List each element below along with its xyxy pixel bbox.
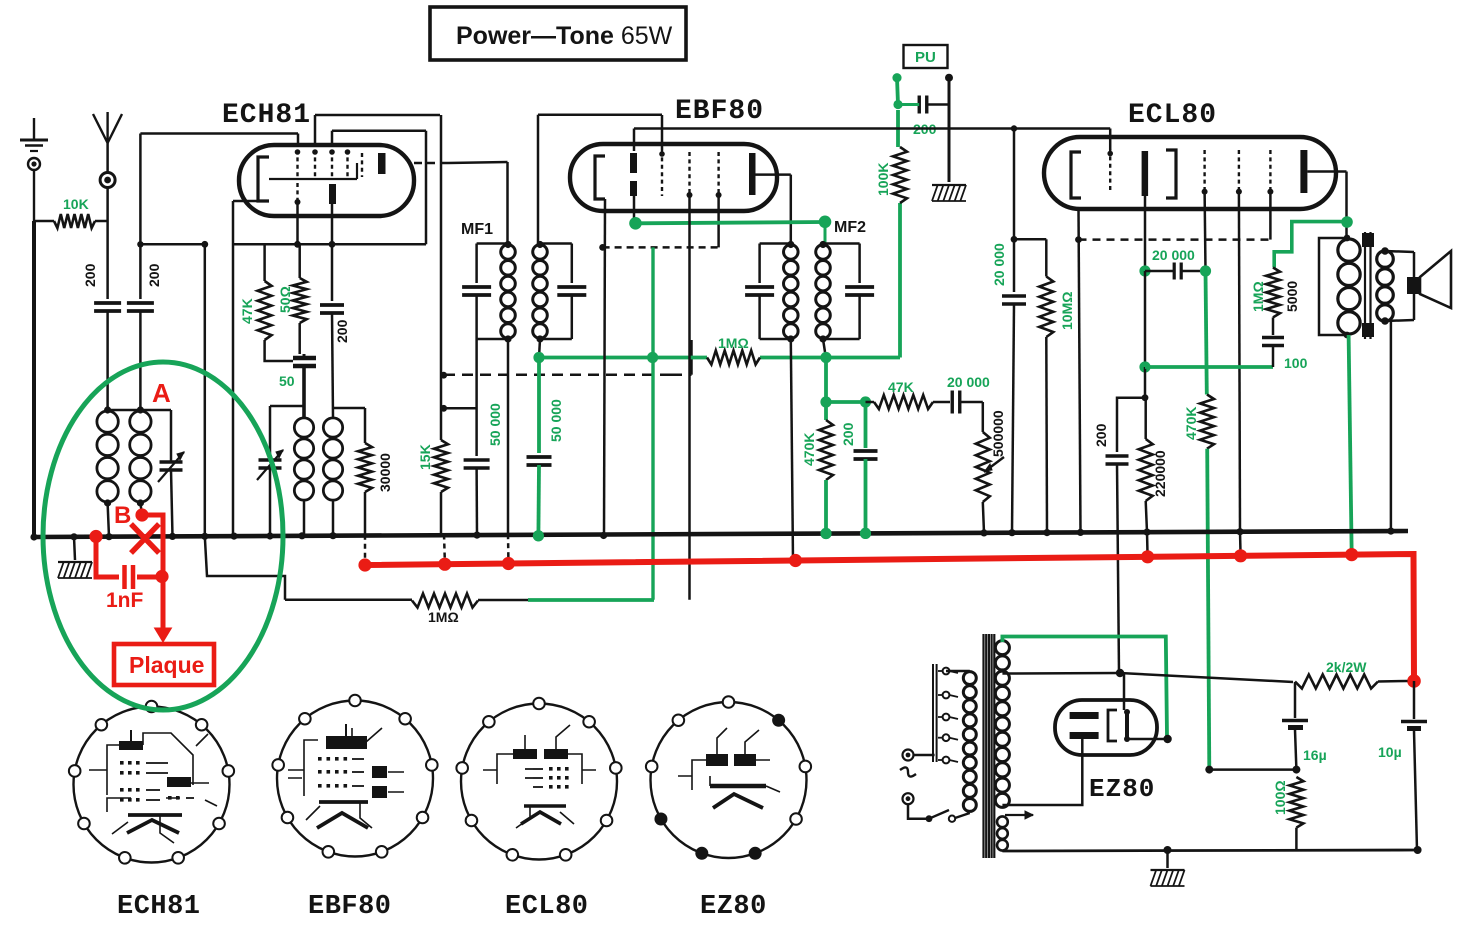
svg-text:200: 200 — [1093, 423, 1109, 447]
svg-text:200: 200 — [146, 263, 162, 287]
svg-text:EBF80: EBF80 — [675, 96, 764, 127]
svg-text:50 000: 50 000 — [548, 399, 564, 442]
svg-text:1nF: 1nF — [106, 589, 144, 612]
svg-text:50: 50 — [279, 373, 295, 389]
svg-text:470K: 470K — [1183, 407, 1199, 440]
svg-text:ECH81: ECH81 — [222, 100, 311, 131]
svg-text:Power—Tone 65W: Power—Tone 65W — [456, 22, 673, 50]
svg-text:20 000: 20 000 — [991, 243, 1007, 286]
svg-text:47K: 47K — [239, 298, 255, 324]
svg-text:Plaque: Plaque — [129, 652, 204, 678]
svg-text:100: 100 — [1284, 355, 1308, 371]
svg-text:200: 200 — [82, 263, 98, 287]
svg-text:50 000: 50 000 — [487, 403, 503, 446]
svg-text:10MΩ: 10MΩ — [1059, 292, 1075, 330]
svg-text:220000: 220000 — [1152, 450, 1168, 497]
svg-text:MF1: MF1 — [461, 221, 493, 238]
svg-text:1MΩ: 1MΩ — [428, 609, 459, 625]
svg-text:200: 200 — [334, 319, 350, 343]
svg-text:200: 200 — [840, 422, 856, 446]
svg-text:100Ω: 100Ω — [1272, 780, 1288, 815]
svg-text:2k/2W: 2k/2W — [1326, 659, 1367, 675]
svg-text:100K: 100K — [875, 163, 891, 196]
svg-text:EZ80: EZ80 — [700, 892, 767, 922]
svg-text:470K: 470K — [801, 433, 817, 466]
svg-text:EZ80: EZ80 — [1089, 774, 1155, 804]
svg-text:EBF80: EBF80 — [308, 892, 392, 922]
svg-text:ECH81: ECH81 — [117, 892, 201, 922]
svg-text:30000: 30000 — [377, 453, 393, 492]
svg-text:ECL80: ECL80 — [1128, 100, 1217, 131]
svg-text:47K: 47K — [888, 379, 914, 395]
svg-text:PU: PU — [915, 49, 936, 66]
svg-text:5000: 5000 — [1284, 281, 1300, 312]
svg-text:1MΩ: 1MΩ — [718, 335, 749, 351]
svg-text:ECL80: ECL80 — [505, 892, 589, 922]
svg-text:20 000: 20 000 — [1152, 247, 1195, 263]
svg-text:10µ: 10µ — [1378, 744, 1402, 760]
svg-text:1MΩ: 1MΩ — [1250, 281, 1266, 312]
svg-text:A: A — [152, 378, 171, 408]
svg-text:10K: 10K — [63, 196, 89, 212]
svg-text:20 000: 20 000 — [947, 374, 990, 390]
svg-text:B: B — [114, 502, 131, 529]
svg-text:15K: 15K — [417, 444, 433, 470]
svg-text:16µ: 16µ — [1303, 747, 1327, 763]
svg-text:500000: 500000 — [990, 410, 1006, 457]
svg-text:MF2: MF2 — [834, 219, 866, 236]
svg-text:50Ω: 50Ω — [277, 286, 293, 313]
